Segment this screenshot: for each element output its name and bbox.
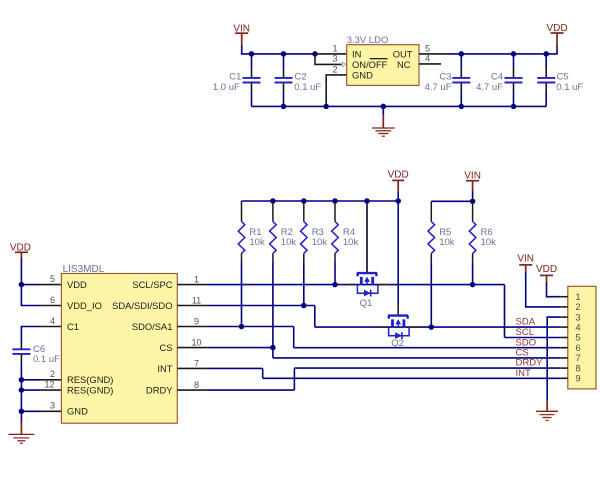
svg-text:VIN: VIN — [517, 253, 534, 264]
wire DRDY row (chip pin 8) — [207, 389, 294, 391]
wire pin 2 (LDO GND) — [326, 75, 347, 107]
pin 1 stub — [177, 284, 207, 286]
junction — [19, 409, 25, 415]
wire SDA row to connector pin 4 — [315, 326, 561, 328]
svg-text:SDA: SDA — [516, 317, 536, 328]
svg-text:4.7 uF: 4.7 uF — [476, 82, 503, 93]
wire Q1 gate — [366, 201, 368, 274]
junction — [381, 104, 387, 110]
junction — [281, 51, 287, 57]
capacitor C3 4.7 uF — [425, 54, 471, 107]
svg-text:C1: C1 — [229, 71, 241, 82]
pin 9 stub — [177, 326, 207, 328]
svg-text:0.1 uF: 0.1 uF — [33, 354, 60, 365]
svg-text:10k: 10k — [249, 237, 265, 248]
svg-text:8: 8 — [194, 380, 199, 390]
power VIN (connector) — [517, 253, 534, 273]
resistor R5 10k — [428, 201, 455, 327]
connector pin 2 stub — [561, 306, 568, 308]
junction — [281, 104, 287, 110]
junction — [249, 51, 255, 57]
wire INT row (chip pin 7) — [207, 367, 262, 369]
wire SCL row (chip pin 1 to drop) — [207, 284, 504, 286]
wire VIN vertical — [472, 191, 474, 201]
power VDD (connector) — [536, 264, 557, 284]
Q1 drain pin — [378, 284, 389, 286]
junction — [511, 104, 517, 110]
wire INT jog down — [262, 368, 264, 378]
svg-text:GND: GND — [67, 406, 88, 417]
wire pin 4 stub (LDO NC) — [419, 63, 441, 65]
svg-text:C1: C1 — [67, 321, 79, 332]
resistor R4 10k — [332, 201, 359, 285]
svg-text:9: 9 — [575, 374, 580, 385]
svg-text:10k: 10k — [439, 237, 455, 248]
junction — [19, 377, 25, 383]
svg-text:1: 1 — [332, 44, 337, 54]
wire top rail (VIN node) — [241, 53, 315, 55]
Q2 drain pin — [409, 326, 420, 328]
capacitor C6 0.1 uF — [12, 343, 60, 366]
junction — [312, 51, 318, 57]
svg-text:C3: C3 — [439, 71, 451, 82]
connector pin 3 stub — [561, 316, 568, 318]
op-amp U1: 3.3V LDO regulator box — [347, 45, 419, 86]
svg-text:10k: 10k — [343, 237, 359, 248]
svg-text:10k: 10k — [281, 237, 297, 248]
wire SDO row (chip pin 9) — [207, 326, 293, 328]
wire pin 1 stub (LDO IN) — [315, 53, 347, 55]
svg-text:10k: 10k — [481, 237, 497, 248]
pin 12 stub — [41, 389, 62, 391]
wire bottom bus (GND rail top section) — [252, 105, 547, 107]
svg-text:IN: IN — [352, 48, 361, 59]
connector pin 4 stub — [561, 326, 568, 328]
svg-text:C4: C4 — [491, 71, 503, 82]
connector pin 8 stub — [561, 367, 568, 369]
junction R4/SCL — [332, 282, 338, 288]
wire C6 to ground rail — [20, 362, 22, 380]
transistor Q2 — [388, 316, 409, 339]
resistor R1 10k — [238, 201, 265, 327]
wire SDA row (chip pin 11) — [207, 305, 314, 307]
junction — [459, 51, 465, 57]
wire VIN to top rail — [241, 46, 243, 54]
svg-text:4.7 uF: 4.7 uF — [425, 82, 452, 93]
pin 8 stub — [177, 389, 207, 391]
svg-text:11: 11 — [192, 296, 201, 306]
svg-text:RES(GND): RES(GND) — [67, 385, 113, 396]
pin 11 stub — [177, 305, 207, 307]
junction R5/SDA — [429, 324, 435, 330]
capacitor C1 1.0 uF — [213, 54, 261, 107]
svg-text:3.3V LDO: 3.3V LDO — [347, 35, 389, 46]
svg-text:NC: NC — [397, 59, 411, 70]
wire CS row (chip pin 10) — [207, 347, 273, 349]
svg-text:C2: C2 — [295, 71, 307, 82]
svg-text:5: 5 — [50, 274, 55, 284]
svg-text:3: 3 — [332, 54, 337, 64]
junction R3/SDA — [301, 303, 307, 309]
svg-text:4: 4 — [575, 322, 580, 333]
pin 10 stub — [177, 347, 207, 349]
power VIN (top left) — [233, 23, 250, 46]
power VIN (middle) — [464, 171, 481, 193]
wire VDD top rail — [450, 53, 557, 55]
wire pin 4 to C6 — [21, 327, 40, 343]
resistor R6 10k — [469, 201, 496, 284]
wire pull-up bus R1-R4 — [242, 200, 399, 202]
pin 5 stub — [41, 284, 62, 286]
svg-text:4: 4 — [50, 316, 55, 326]
power VDD (top right) — [546, 23, 567, 46]
transistor Q1 — [357, 273, 378, 296]
wire to pin 12 — [21, 389, 40, 391]
svg-text:5: 5 — [425, 44, 430, 54]
wire pull-up bus R5-R6 — [431, 200, 472, 202]
svg-text:9: 9 — [194, 317, 199, 327]
junction — [470, 199, 476, 205]
pin 2 stub — [41, 379, 62, 381]
svg-text:3: 3 — [50, 401, 55, 411]
wire connector pin 3 to ground — [547, 317, 561, 401]
wire SCL to connector pin 5 — [505, 337, 561, 339]
junction — [301, 198, 307, 204]
svg-text:7: 7 — [194, 358, 199, 368]
connector pin 1 stub — [561, 296, 568, 298]
resistor R2 10k — [270, 201, 297, 348]
junction — [395, 198, 401, 204]
Q2 source pin — [378, 326, 388, 328]
wire ground rail left — [20, 380, 22, 423]
ground (below LDO) — [372, 106, 395, 136]
wire VDD to connector pin 1 — [547, 283, 561, 297]
junction — [19, 282, 25, 288]
svg-text:VDD_IO: VDD_IO — [67, 300, 102, 311]
Q1 source pin — [347, 284, 357, 286]
svg-text:VDD: VDD — [536, 264, 557, 275]
svg-text:0.1 uF: 0.1 uF — [556, 82, 583, 93]
connector pin 9 stub — [561, 377, 568, 379]
svg-text:2: 2 — [50, 369, 55, 379]
junction — [543, 51, 549, 57]
IC U2: LIS3MDL — [61, 274, 177, 424]
connector pin 5 stub — [561, 337, 568, 339]
power VDD (bottom left) — [10, 242, 31, 259]
junction — [19, 387, 25, 393]
ground (bottom left) — [8, 422, 34, 444]
svg-text:CS: CS — [159, 342, 172, 353]
connector pin 6 stub — [561, 347, 568, 349]
wire CS to connector pin 7 — [273, 357, 561, 359]
svg-text:OUT: OUT — [393, 48, 413, 59]
svg-text:6: 6 — [50, 295, 55, 305]
capacitor C2 0.1 uF — [275, 54, 322, 107]
wire DRDY rise — [293, 368, 295, 390]
wire to pin 3 — [21, 410, 40, 412]
svg-text:INT: INT — [516, 368, 532, 379]
resistor R3 10k — [301, 201, 328, 306]
junction — [332, 198, 338, 204]
svg-text:VDD: VDD — [67, 279, 87, 290]
svg-text:DRDY: DRDY — [146, 385, 173, 396]
svg-text:SCL/SPC: SCL/SPC — [132, 279, 172, 290]
svg-text:INT: INT — [157, 363, 172, 374]
wire SDO to connector pin 6 — [294, 347, 561, 349]
wire SDO drop — [293, 327, 295, 348]
wire CS jog down — [272, 348, 274, 358]
svg-text:1.0 uF: 1.0 uF — [213, 82, 240, 93]
capacitor C5 0.1 uF — [537, 54, 583, 107]
overline over OFF — [370, 58, 388, 60]
junction — [364, 198, 370, 204]
junction — [511, 51, 517, 57]
wire pin 5 stub (LDO OUT) — [419, 53, 450, 55]
pin 6 stub — [41, 305, 62, 307]
svg-text:2: 2 — [332, 64, 337, 74]
power VDD (middle) — [388, 169, 409, 191]
junction R6/SCL — [470, 282, 476, 288]
ground (below connector) — [536, 401, 558, 421]
svg-text:0.1 uF: 0.1 uF — [294, 82, 321, 93]
wire VIN to connector pin 2 — [526, 272, 561, 307]
wire VDD rail left — [21, 259, 40, 306]
svg-text:LIS3MDL: LIS3MDL — [63, 264, 105, 275]
wire to VDD power — [556, 46, 558, 55]
svg-text:1: 1 — [194, 275, 199, 285]
wire SDA jog down — [314, 306, 316, 328]
svg-text:Q1: Q1 — [360, 298, 373, 309]
junction — [323, 104, 329, 110]
capacitor C4 4.7 uF — [476, 54, 522, 107]
inverted input marker pin 3 — [342, 62, 346, 66]
svg-text:VDD: VDD — [388, 169, 409, 180]
wire INT to connector pin 9 — [263, 377, 561, 379]
pin 7 stub — [177, 367, 207, 369]
junction R1/SDO — [239, 324, 245, 330]
Q2 gate pin — [397, 304, 399, 315]
svg-text:GND: GND — [352, 69, 373, 80]
pin 4 stub — [41, 326, 62, 328]
wire pin 3 jog (LDO ON/OFF) — [315, 54, 342, 65]
svg-text:ON/OFF: ON/OFF — [352, 59, 388, 70]
svg-text:C5: C5 — [557, 71, 569, 82]
connector J1 — [568, 286, 596, 389]
wire SCL drop — [504, 285, 506, 338]
svg-text:10k: 10k — [312, 237, 328, 248]
svg-text:SDA/SDI/SDO: SDA/SDI/SDO — [112, 300, 172, 311]
svg-text:10: 10 — [191, 338, 201, 348]
svg-text:SDO/SA1: SDO/SA1 — [132, 321, 173, 332]
wire DRDY to connector pin 8 — [294, 367, 560, 369]
svg-text:12: 12 — [44, 380, 54, 390]
connector pin 7 stub — [561, 357, 568, 359]
junction — [270, 198, 276, 204]
wire VDD vertical to bus and Q2 gate — [397, 192, 399, 317]
junction — [459, 104, 465, 110]
pin 3 stub — [41, 410, 62, 412]
svg-text:4: 4 — [425, 54, 430, 64]
wire to pin 2 — [21, 379, 40, 381]
wire to pin 5 — [21, 284, 40, 286]
junction R2/CS — [270, 345, 276, 351]
Q1 gate pin — [366, 206, 368, 272]
